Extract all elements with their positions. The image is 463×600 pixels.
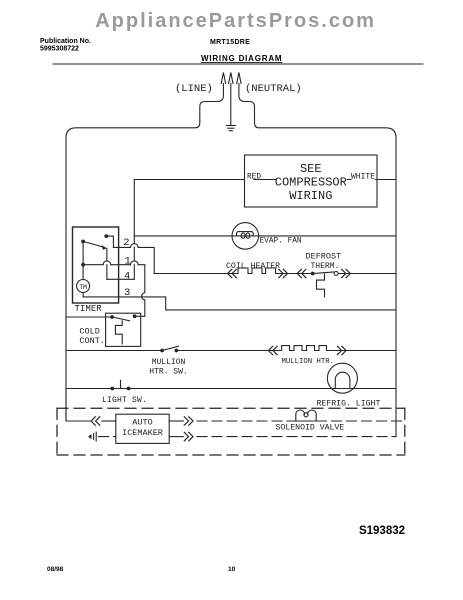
svg-text:COIL HEATER: COIL HEATER xyxy=(226,262,280,271)
svg-text:5995308722: 5995308722 xyxy=(40,46,79,53)
svg-text:WHITE: WHITE xyxy=(351,173,375,182)
svg-text:COMPRESSOR: COMPRESSOR xyxy=(275,176,347,190)
svg-text:4: 4 xyxy=(124,271,130,283)
svg-text:3: 3 xyxy=(124,287,130,299)
svg-text:S193832: S193832 xyxy=(359,525,405,537)
svg-text:2: 2 xyxy=(123,237,129,249)
svg-text:WIRING DIAGRAM: WIRING DIAGRAM xyxy=(201,54,282,63)
svg-text:TM: TM xyxy=(79,284,87,291)
svg-text:HTR. SW.: HTR. SW. xyxy=(149,367,187,376)
svg-text:TIMER: TIMER xyxy=(75,304,103,314)
svg-text:AppliancePartsPros.com: AppliancePartsPros.com xyxy=(95,10,376,32)
svg-text:EVAP. FAN: EVAP. FAN xyxy=(260,238,302,246)
svg-text:RED: RED xyxy=(247,174,261,182)
svg-text:MULLION HTR.: MULLION HTR. xyxy=(282,358,335,366)
svg-text:Publication No.: Publication No. xyxy=(40,38,91,45)
svg-text:LIGHT SW.: LIGHT SW. xyxy=(102,396,147,405)
svg-text:(NEUTRAL): (NEUTRAL) xyxy=(245,83,302,95)
svg-text:MULLION: MULLION xyxy=(152,358,186,367)
svg-text:DEFROST: DEFROST xyxy=(306,252,342,262)
svg-text:10: 10 xyxy=(228,566,236,573)
svg-text:MRT15DRE: MRT15DRE xyxy=(210,39,250,46)
svg-text:1: 1 xyxy=(125,256,131,268)
svg-text:ICEMAKER: ICEMAKER xyxy=(122,428,163,438)
svg-text:AUTO: AUTO xyxy=(132,418,152,428)
svg-text:SOLENOID VALVE: SOLENOID VALVE xyxy=(276,424,345,433)
svg-text:08/98: 08/98 xyxy=(47,566,64,573)
svg-text:WIRING: WIRING xyxy=(289,189,332,203)
svg-text:REFRIG. LIGHT: REFRIG. LIGHT xyxy=(317,399,381,408)
svg-text:(LINE): (LINE) xyxy=(175,83,213,95)
svg-text:SEE: SEE xyxy=(300,162,322,176)
svg-text:CONT.: CONT. xyxy=(79,336,105,346)
svg-text:THERM.: THERM. xyxy=(311,262,340,271)
